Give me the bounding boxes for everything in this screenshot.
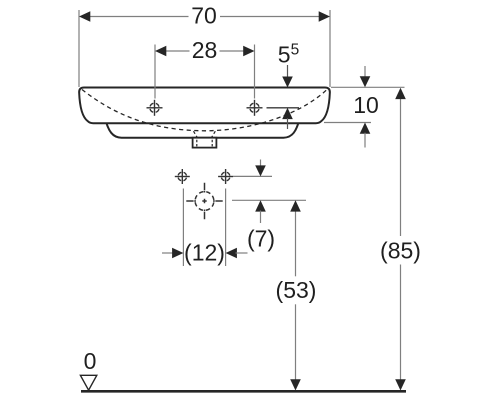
wire: 10 bottom extension line — [324, 122, 371, 124]
basin outline — [79, 88, 330, 124]
arrow 70 right — [319, 11, 330, 22]
wire: 5.5 dim upper stem — [287, 65, 289, 78]
wire: 53 dimension line — [295, 211, 297, 277]
arrow 7 up — [255, 200, 266, 211]
svg-text:(7): (7) — [247, 225, 275, 251]
dashed funnel right — [212, 131, 216, 137]
svg-text:10: 10 — [353, 92, 379, 118]
arrow 7 down — [255, 165, 266, 176]
svg-text:28: 28 — [192, 37, 218, 63]
drain hole symbol — [186, 183, 222, 219]
drain fitting box — [193, 138, 217, 148]
arrow 12 right-pointing — [172, 248, 183, 259]
datum triangle — [80, 375, 96, 390]
arrow 5.5 down — [282, 77, 293, 88]
arrow 10 down — [360, 76, 371, 87]
wire: 70 dimension line — [89, 16, 189, 18]
basin inner dashed curve — [82, 89, 328, 131]
wire: fixing hole level line — [233, 175, 272, 177]
fixing hole left — [175, 169, 190, 184]
wire: 5.5 dim lower stem — [287, 118, 289, 129]
wire: 85 dimension line — [400, 98, 402, 236]
arrow 70 left — [79, 11, 90, 22]
wire: extension line left of 70 dim — [78, 10, 80, 87]
wire: extension line right of 28 dim — [254, 45, 256, 99]
svg-text:(53): (53) — [276, 277, 317, 303]
svg-text:70: 70 — [191, 3, 217, 29]
arrow 5.5 up — [282, 108, 293, 119]
arrow 85 up — [395, 88, 406, 99]
tap hole left — [147, 100, 163, 116]
arrow 85 down — [395, 379, 406, 390]
wire: 12 left tail — [162, 252, 174, 254]
fixing hole right — [218, 169, 233, 184]
svg-text:(12): (12) — [184, 240, 225, 266]
arrow 12 left-pointing — [226, 248, 237, 259]
wire: tap hole level line — [267, 107, 300, 109]
wire: drain level line — [232, 199, 306, 201]
wire: 12 extension line left — [182, 189, 184, 267]
drain box inner dash right — [211, 140, 213, 147]
arrow 28 right — [243, 46, 254, 57]
tap hole right — [247, 100, 263, 116]
arrow 10 up — [360, 123, 371, 134]
arrow 28 left — [155, 46, 166, 57]
wire: 7 lower stem — [260, 211, 262, 224]
dashed funnel left — [194, 131, 198, 137]
wire: extension line right of 70 dim — [329, 10, 331, 87]
svg-text:0: 0 — [84, 348, 97, 374]
floor line — [81, 390, 406, 393]
wire: 10 top extension line — [331, 86, 405, 88]
wire: 12 extension line right — [225, 189, 227, 267]
arrow 53 down — [290, 379, 301, 390]
wire: extension line left of 28 dim — [154, 45, 156, 99]
basin apron — [107, 123, 299, 138]
wire: 10 lower stem — [364, 133, 366, 148]
wire: 10 upper stem — [364, 66, 366, 77]
wire: 12 right tail — [236, 252, 248, 254]
wire: 28 dimension line — [166, 50, 190, 52]
svg-text:(85): (85) — [380, 238, 421, 264]
drain box inner dash left — [196, 140, 198, 147]
wire: 7 upper stem — [260, 160, 262, 167]
arrow 53 up — [290, 200, 301, 211]
